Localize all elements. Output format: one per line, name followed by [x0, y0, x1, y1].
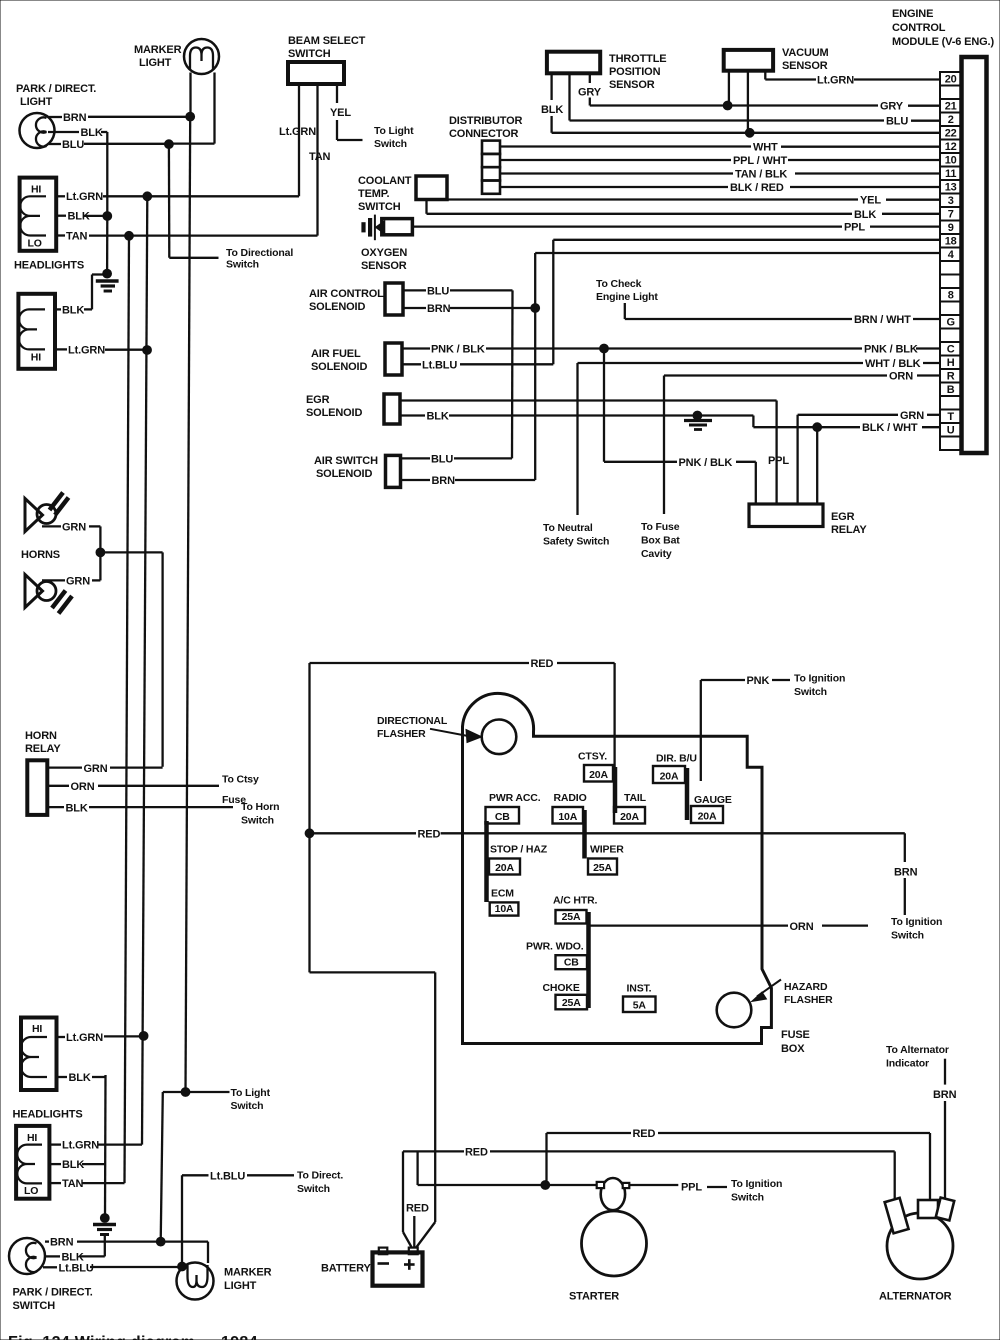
svg-text:22: 22	[945, 127, 957, 139]
svg-text:BLK: BLK	[69, 1072, 91, 1084]
svg-text:BRN: BRN	[432, 475, 456, 487]
svg-text:DISTRIBUTOR: DISTRIBUTOR	[449, 115, 523, 127]
svg-text:G: G	[946, 316, 954, 328]
svg-text:BLK / RED: BLK / RED	[730, 182, 784, 194]
svg-text:BLU: BLU	[431, 453, 453, 465]
svg-text:BLU: BLU	[427, 285, 449, 297]
svg-text:Fig. 124 Wiring diagram — 1984: Fig. 124 Wiring diagram — 1984	[8, 1334, 258, 1340]
svg-text:YEL: YEL	[330, 107, 351, 119]
svg-text:CB: CB	[495, 811, 510, 823]
svg-text:HI: HI	[31, 352, 41, 364]
svg-text:7: 7	[948, 208, 954, 220]
svg-text:LIGHT: LIGHT	[20, 96, 53, 108]
svg-text:BRN: BRN	[894, 867, 918, 879]
svg-text:EGR: EGR	[831, 511, 855, 523]
svg-text:SOLENOID: SOLENOID	[309, 301, 365, 313]
svg-text:HORN: HORN	[25, 730, 57, 742]
svg-text:POSITION: POSITION	[609, 66, 661, 78]
svg-text:SWITCH: SWITCH	[288, 48, 331, 60]
svg-text:5A: 5A	[633, 1000, 647, 1012]
svg-text:PARK / DIRECT.: PARK / DIRECT.	[16, 83, 96, 95]
svg-text:GRY: GRY	[578, 87, 602, 99]
svg-text:GRY: GRY	[880, 101, 904, 113]
svg-text:Lt.GRN: Lt.GRN	[62, 1140, 99, 1152]
svg-text:To Light: To Light	[231, 1087, 271, 1099]
svg-text:9: 9	[948, 222, 954, 234]
svg-text:SOLENOID: SOLENOID	[306, 407, 362, 419]
svg-text:CTSY.: CTSY.	[578, 751, 607, 763]
svg-text:INST.: INST.	[627, 983, 652, 995]
svg-text:HI: HI	[32, 1023, 42, 1035]
svg-text:GRN: GRN	[66, 576, 90, 588]
svg-text:PWR ACC.: PWR ACC.	[489, 792, 541, 804]
svg-text:FLASHER: FLASHER	[377, 728, 426, 740]
svg-text:BLU: BLU	[62, 139, 84, 151]
svg-text:To Ignition: To Ignition	[794, 673, 845, 685]
svg-text:BRN / WHT: BRN / WHT	[854, 314, 911, 326]
svg-text:Engine Light: Engine Light	[596, 291, 658, 303]
svg-text:HI: HI	[31, 184, 41, 196]
svg-text:CB: CB	[564, 957, 579, 969]
svg-text:YEL: YEL	[860, 195, 881, 207]
svg-text:FLASHER: FLASHER	[784, 994, 833, 1006]
svg-text:Switch: Switch	[226, 259, 259, 271]
svg-text:RED: RED	[633, 1128, 656, 1140]
svg-text:WHT / BLK: WHT / BLK	[865, 358, 921, 370]
svg-text:RED: RED	[531, 658, 554, 670]
svg-text:To Direct.: To Direct.	[297, 1170, 343, 1182]
svg-text:Lt.GRN: Lt.GRN	[66, 1032, 103, 1044]
svg-text:TEMP.: TEMP.	[358, 188, 390, 200]
svg-text:BRN: BRN	[50, 1237, 74, 1249]
svg-text:To Light: To Light	[374, 125, 414, 137]
svg-text:Switch: Switch	[891, 930, 924, 942]
svg-text:Safety Switch: Safety Switch	[543, 536, 609, 548]
svg-text:BLK: BLK	[541, 104, 563, 116]
svg-text:ORN: ORN	[889, 371, 913, 383]
svg-text:To Fuse: To Fuse	[641, 521, 680, 533]
svg-text:RED: RED	[406, 1203, 429, 1215]
svg-text:10A: 10A	[495, 903, 514, 915]
svg-text:BEAM SELECT: BEAM SELECT	[288, 35, 366, 47]
svg-text:GAUGE: GAUGE	[694, 794, 732, 806]
svg-text:LIGHT: LIGHT	[139, 57, 172, 69]
svg-text:To Alternator: To Alternator	[886, 1044, 949, 1056]
svg-text:PNK: PNK	[747, 675, 770, 687]
svg-text:MARKER: MARKER	[134, 44, 182, 56]
svg-text:CONTROL: CONTROL	[892, 22, 946, 34]
svg-text:BLK: BLK	[81, 127, 103, 139]
svg-text:R: R	[947, 370, 955, 382]
svg-text:HI: HI	[27, 1132, 37, 1144]
svg-text:Lt.BLU: Lt.BLU	[422, 359, 457, 371]
svg-text:H: H	[947, 357, 955, 369]
svg-text:10: 10	[945, 154, 957, 166]
svg-text:HEADLIGHTS: HEADLIGHTS	[13, 1109, 83, 1121]
svg-text:STOP / HAZ: STOP / HAZ	[490, 844, 548, 856]
svg-text:11: 11	[945, 168, 956, 180]
svg-text:20: 20	[945, 73, 957, 85]
svg-text:PPL: PPL	[681, 1182, 702, 1194]
svg-text:4: 4	[948, 249, 955, 261]
svg-text:20A: 20A	[495, 862, 514, 874]
svg-text:13: 13	[945, 181, 957, 193]
svg-text:Switch: Switch	[231, 1100, 264, 1112]
svg-text:ALTERNATOR: ALTERNATOR	[879, 1291, 952, 1303]
svg-text:SENSOR: SENSOR	[609, 79, 655, 91]
svg-text:PPL: PPL	[844, 222, 865, 234]
svg-text:HAZARD: HAZARD	[784, 981, 828, 993]
svg-text:BRN: BRN	[63, 112, 87, 124]
svg-text:MODULE (V-6 ENG.): MODULE (V-6 ENG.)	[892, 36, 994, 48]
svg-text:8: 8	[948, 289, 954, 301]
svg-text:TAN: TAN	[62, 1178, 84, 1190]
svg-text:BLK: BLK	[427, 411, 449, 423]
svg-text:3: 3	[948, 195, 954, 207]
svg-text:EGR: EGR	[306, 394, 330, 406]
svg-text:Indicator: Indicator	[886, 1058, 929, 1070]
svg-text:HEADLIGHTS: HEADLIGHTS	[14, 260, 84, 272]
svg-text:BLK: BLK	[854, 209, 876, 221]
svg-text:To Ignition: To Ignition	[731, 1178, 782, 1190]
svg-text:AIR SWITCH: AIR SWITCH	[314, 455, 378, 467]
svg-text:BLK: BLK	[62, 1159, 84, 1171]
svg-text:Cavity: Cavity	[641, 548, 672, 560]
svg-text:25A: 25A	[562, 997, 581, 1009]
svg-text:SOLENOID: SOLENOID	[311, 361, 367, 373]
svg-text:Lt.GRN: Lt.GRN	[817, 75, 854, 87]
svg-text:20A: 20A	[620, 811, 639, 823]
svg-text:FUSE: FUSE	[781, 1029, 810, 1041]
svg-text:ECM: ECM	[491, 888, 514, 900]
svg-text:To Horn: To Horn	[241, 801, 279, 813]
svg-text:Lt.GRN: Lt.GRN	[279, 126, 316, 138]
svg-text:20A: 20A	[698, 811, 717, 823]
svg-text:BATTERY: BATTERY	[321, 1263, 371, 1275]
svg-text:20A: 20A	[589, 769, 608, 781]
svg-text:BRN: BRN	[933, 1089, 957, 1101]
svg-text:PNK / BLK: PNK / BLK	[431, 344, 485, 356]
svg-text:Switch: Switch	[297, 1183, 330, 1195]
svg-text:BRN: BRN	[427, 303, 451, 315]
svg-text:SWITCH: SWITCH	[13, 1300, 56, 1312]
svg-text:ENGINE: ENGINE	[892, 8, 933, 20]
svg-text:To Ctsy: To Ctsy	[222, 774, 259, 786]
svg-text:PPL: PPL	[768, 455, 789, 467]
svg-text:ORN: ORN	[790, 921, 814, 933]
svg-text:STARTER: STARTER	[569, 1291, 619, 1303]
svg-text:To Check: To Check	[596, 278, 642, 290]
svg-text:PNK / BLK: PNK / BLK	[679, 457, 733, 469]
svg-text:Switch: Switch	[731, 1192, 764, 1204]
svg-text:BOX: BOX	[781, 1043, 805, 1055]
svg-text:VACUUM: VACUUM	[782, 47, 829, 59]
svg-text:GRN: GRN	[84, 763, 108, 775]
svg-text:12: 12	[945, 141, 957, 153]
svg-text:A/C HTR.: A/C HTR.	[553, 895, 598, 907]
svg-text:TAN: TAN	[309, 151, 331, 163]
svg-text:PPL / WHT: PPL / WHT	[733, 155, 787, 167]
svg-text:21: 21	[945, 100, 957, 112]
svg-text:Switch: Switch	[374, 138, 407, 150]
svg-text:WIPER: WIPER	[590, 844, 624, 856]
svg-text:LO: LO	[28, 238, 42, 250]
svg-text:RADIO: RADIO	[554, 792, 587, 804]
svg-text:To Neutral: To Neutral	[543, 522, 593, 534]
svg-text:RED: RED	[418, 828, 441, 840]
svg-text:AIR FUEL: AIR FUEL	[311, 348, 361, 360]
svg-text:MARKER: MARKER	[224, 1267, 272, 1279]
svg-text:B: B	[947, 384, 955, 396]
svg-text:Lt.BLU: Lt.BLU	[210, 1170, 245, 1182]
svg-text:25A: 25A	[593, 862, 612, 874]
svg-text:DIRECTIONAL: DIRECTIONAL	[377, 715, 448, 727]
svg-text:PNK / BLK: PNK / BLK	[864, 344, 918, 356]
svg-text:DIR. B/U: DIR. B/U	[656, 753, 697, 765]
svg-text:Switch: Switch	[241, 815, 274, 827]
svg-text:10A: 10A	[558, 811, 577, 823]
svg-text:BLK: BLK	[66, 802, 88, 814]
svg-text:AIR CONTROL: AIR CONTROL	[309, 288, 384, 300]
svg-text:TAIL: TAIL	[624, 792, 647, 804]
svg-text:BLK: BLK	[62, 304, 84, 316]
svg-text:SWITCH: SWITCH	[358, 201, 401, 213]
svg-text:BLK / WHT: BLK / WHT	[862, 422, 918, 434]
svg-text:Box Bat: Box Bat	[641, 535, 680, 547]
svg-text:C: C	[947, 343, 955, 355]
svg-text:Lt.BLU: Lt.BLU	[59, 1262, 94, 1274]
svg-text:RELAY: RELAY	[831, 524, 867, 536]
svg-text:Lt.GRN: Lt.GRN	[66, 191, 103, 203]
svg-text:RELAY: RELAY	[25, 743, 61, 755]
svg-text:WHT: WHT	[753, 142, 778, 154]
svg-text:25A: 25A	[562, 911, 581, 923]
svg-text:T: T	[947, 411, 954, 423]
svg-text:To Directional: To Directional	[226, 247, 293, 259]
svg-text:To Ignition: To Ignition	[891, 916, 942, 928]
svg-text:ORN: ORN	[71, 781, 95, 793]
svg-text:2: 2	[948, 114, 954, 126]
svg-text:TAN: TAN	[66, 230, 88, 242]
svg-text:LIGHT: LIGHT	[224, 1280, 257, 1292]
svg-text:THROTTLE: THROTTLE	[609, 53, 666, 65]
svg-text:TAN / BLK: TAN / BLK	[735, 169, 787, 181]
svg-text:GRN: GRN	[900, 410, 924, 422]
svg-text:RED: RED	[465, 1146, 488, 1158]
svg-text:SENSOR: SENSOR	[361, 260, 407, 272]
svg-text:CHOKE: CHOKE	[543, 982, 580, 994]
svg-text:SOLENOID: SOLENOID	[316, 468, 372, 480]
svg-text:U: U	[947, 424, 955, 436]
svg-text:OXYGEN: OXYGEN	[361, 247, 407, 259]
svg-text:CONNECTOR: CONNECTOR	[449, 128, 519, 140]
svg-text:LO: LO	[24, 1185, 38, 1197]
svg-text:SENSOR: SENSOR	[782, 60, 828, 72]
svg-text:Lt.GRN: Lt.GRN	[68, 344, 105, 356]
svg-text:HORNS: HORNS	[21, 549, 60, 561]
svg-text:20A: 20A	[660, 771, 679, 783]
svg-text:BLU: BLU	[886, 116, 908, 128]
svg-text:18: 18	[945, 235, 957, 247]
svg-text:Switch: Switch	[794, 686, 827, 698]
svg-text:PARK / DIRECT.: PARK / DIRECT.	[13, 1287, 93, 1299]
svg-text:PWR. WDO.: PWR. WDO.	[526, 941, 584, 953]
svg-text:GRN: GRN	[62, 522, 86, 534]
svg-text:COOLANT: COOLANT	[358, 175, 412, 187]
